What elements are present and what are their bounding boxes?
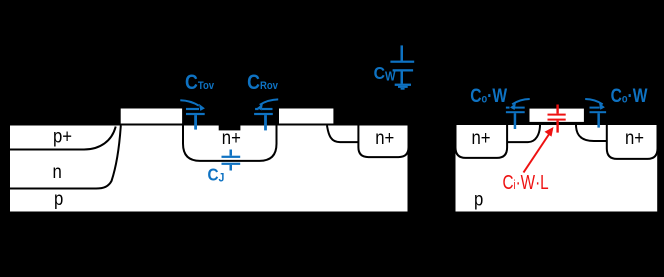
red annotation arrow to Ci: [524, 127, 554, 173]
svg-text:n+: n+: [472, 127, 491, 148]
right n+ extension shelf under gate: [576, 125, 607, 141]
capacitor CW with ground: [390, 45, 414, 83]
capacitor Ci (red, in gate): [548, 105, 566, 133]
label n+ right (left device): [375, 127, 394, 148]
capacitor CTov symbol: [180, 100, 205, 129]
label n: [53, 161, 62, 182]
label p: [54, 188, 63, 209]
capacitor CJ symbol: [222, 150, 241, 171]
p+/n junction line: [8, 127, 116, 150]
shallow n+ extension shelf (left device right side): [327, 126, 358, 143]
svg-text:n+: n+: [375, 127, 394, 148]
left device substrate body: [9, 125, 409, 213]
svg-text:Ci·W·L: Ci·W·L: [503, 171, 549, 194]
label Co·W right: [611, 85, 648, 107]
svg-text:p: p: [474, 189, 483, 210]
gate electrode (right device): [529, 108, 585, 123]
label CW: [374, 63, 397, 83]
capacitor Co·W right symbol: [585, 99, 606, 128]
right device substrate body: [455, 124, 659, 213]
capacitor CRov symbol: [254, 99, 278, 130]
n/p junction line with sinker boundary: [8, 126, 121, 189]
left n+ extension shelf under gate: [507, 125, 540, 142]
label Co·W left: [470, 84, 507, 106]
label CRov: [247, 71, 278, 95]
svg-text:n+: n+: [625, 127, 644, 148]
label n+ (right device left): [472, 127, 491, 148]
label n+ middle: [222, 127, 241, 148]
capacitor Co·W left symbol: [506, 99, 530, 129]
svg-text:Co·W: Co·W: [470, 84, 507, 106]
gate recess notch (black): [219, 118, 241, 130]
label p (right device): [474, 189, 483, 210]
right n+ pocket (right device): [607, 125, 658, 159]
left n+ pocket (right device): [456, 125, 508, 158]
svg-text:n+: n+: [222, 127, 241, 148]
svg-text:n: n: [53, 161, 62, 182]
label CJ: [208, 164, 225, 184]
label CTov: [185, 71, 214, 95]
svg-text:p+: p+: [53, 125, 72, 146]
n+ well outline (middle): [183, 125, 277, 161]
electrode plate 2 (right contact): [278, 108, 334, 125]
label Ci·W·L: [503, 171, 549, 194]
svg-text:p: p: [54, 188, 63, 209]
label n+ (right device right): [625, 127, 644, 148]
electrode plate 1 (left contact): [120, 108, 183, 125]
label p+: [53, 125, 72, 146]
ground symbol: [395, 84, 411, 90]
right n+ box (left device): [358, 125, 408, 157]
svg-text:Co·W: Co·W: [611, 85, 648, 107]
